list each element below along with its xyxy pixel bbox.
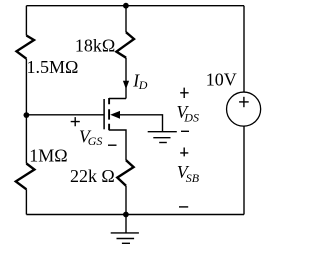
svg-text:10V: 10V <box>206 70 237 90</box>
svg-text:18kΩ: 18kΩ <box>75 36 115 56</box>
svg-text:1MΩ: 1MΩ <box>29 145 67 165</box>
svg-text:Ω: Ω <box>101 166 114 186</box>
svg-text:1.5MΩ: 1.5MΩ <box>27 57 79 77</box>
svg-text:DS: DS <box>183 110 199 124</box>
svg-text:GS: GS <box>88 134 103 148</box>
svg-text:D: D <box>138 78 148 92</box>
svg-text:SB: SB <box>186 171 200 185</box>
svg-text:22k: 22k <box>70 166 97 186</box>
